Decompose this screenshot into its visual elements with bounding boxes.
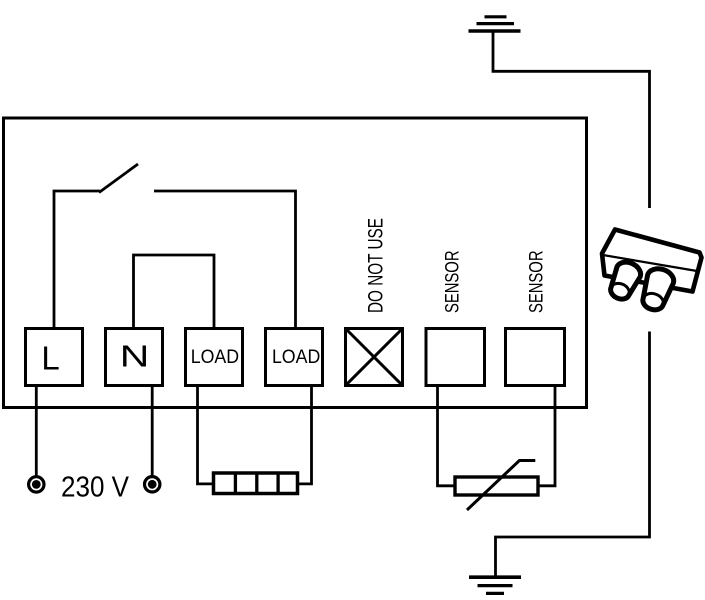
svg-text:SENSOR: SENSOR: [526, 250, 547, 313]
svg-text:N: N: [120, 338, 150, 373]
svg-text:230 V: 230 V: [61, 470, 130, 503]
svg-text:LOAD: LOAD: [272, 345, 320, 367]
svg-text:L: L: [41, 340, 59, 377]
svg-text:DO NOT USE: DO NOT USE: [363, 218, 387, 313]
svg-text:SENSOR: SENSOR: [442, 250, 463, 313]
svg-text:LOAD: LOAD: [191, 345, 239, 367]
